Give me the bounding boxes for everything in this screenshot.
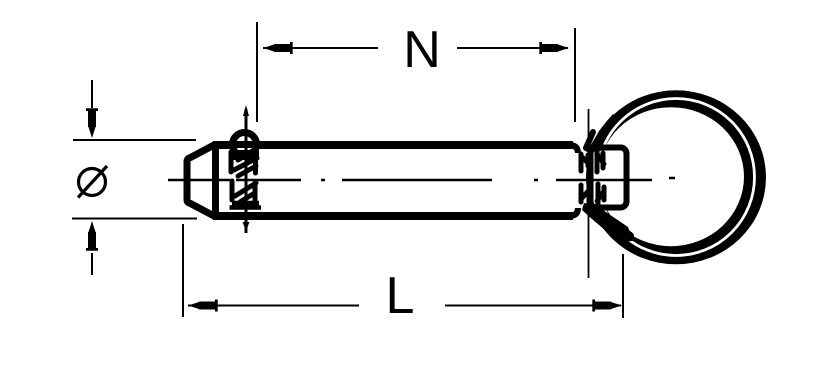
dimension N: left extension line <box>256 22 258 122</box>
shaft bottom line <box>213 212 573 220</box>
dimension dia: top arrow (pointing down) <box>91 80 93 108</box>
shaft end neck bottom <box>571 208 578 216</box>
ring wire entering head top <box>586 114 618 152</box>
detent ball B1 <box>233 133 257 157</box>
dimension L: right dimension line <box>445 305 621 307</box>
spring S1 (zigzag below ball) <box>231 150 257 202</box>
small blob at bottom of spring centerline <box>243 222 250 231</box>
dimension N: left dimension line <box>263 47 378 49</box>
section squiggles inside head (upper) <box>581 151 604 172</box>
dimension N: right extension line <box>574 28 576 122</box>
dimension L: right arrow <box>592 300 622 312</box>
spring seat bars <box>230 203 262 208</box>
shaft end neck top <box>571 145 578 153</box>
section squiggles inside head (lower) <box>581 184 604 205</box>
dimension dia: bottom extension line <box>72 218 197 220</box>
dimension dia: bottom arrow (pointing up) <box>91 253 93 275</box>
shaft top line <box>213 141 573 149</box>
extension line (grip boundary through head) <box>588 109 590 278</box>
dimension L: left dimension line <box>188 305 359 307</box>
dimension L: right extension line <box>622 254 624 318</box>
dimension L: left arrow <box>188 300 218 312</box>
dimension N: right arrow <box>539 42 569 54</box>
dimension dia: diameter symbol <box>79 169 106 196</box>
centerline (dash-dot) <box>168 178 675 180</box>
pin tip outline <box>187 145 215 217</box>
svg-text:N: N <box>403 21 441 79</box>
head H1 (pin head, rounded rectangle) <box>591 148 627 208</box>
ring R1 wire highlight (thin white ring) <box>598 99 755 256</box>
dimension N: left arrow <box>263 42 293 54</box>
svg-text:L: L <box>386 267 415 325</box>
ring R1 annulus (wire torus) <box>586 90 766 264</box>
horizontal line through ball (shaft line visible) <box>230 141 259 148</box>
vertical centerline through ball and spring <box>245 109 248 233</box>
dimension N: right dimension line <box>457 47 568 49</box>
small dart at top of ball centerline <box>243 105 249 116</box>
dimension L: left extension line <box>182 224 184 317</box>
dimension dia: top extension line <box>73 139 196 141</box>
ring wire exiting head bottom <box>582 203 633 242</box>
tip/body junction line <box>212 142 219 219</box>
ball seat blob below ball <box>233 150 259 160</box>
